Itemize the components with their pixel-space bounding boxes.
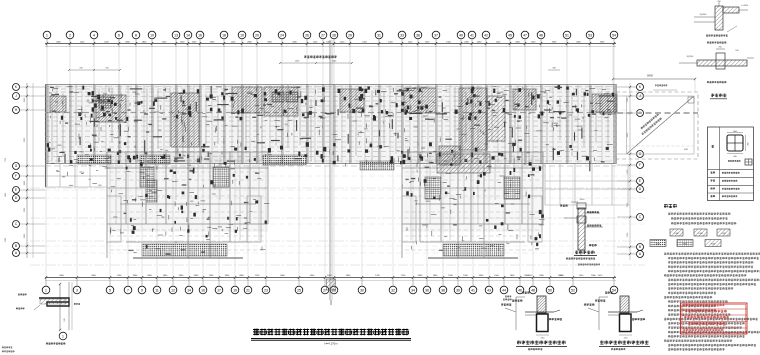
svg-text:13: 13 [174,33,178,37]
svg-text:26: 26 [305,33,309,37]
svg-text:8: 8 [135,33,137,37]
svg-text:h120: h120 [721,233,725,235]
annex edge hatch [600,96,616,114]
left lower unit cluster [107,152,268,258]
svg-text:B: B [639,245,641,249]
svg-text:2: 2 [69,33,71,37]
svg-text:14: 14 [187,288,191,292]
dotted slab bands [77,155,504,256]
svg-text:54: 54 [612,288,616,292]
svg-text:5: 5 [109,288,111,292]
svg-text:16: 16 [201,288,205,292]
right end rooms [545,164,630,205]
svg-text:36: 36 [416,33,420,37]
svg-text:6: 6 [118,33,120,37]
svg-text:F: F [15,174,17,178]
svg-text:30: 30 [360,288,364,292]
svg-text:48: 48 [539,33,543,37]
annex grid dashes [617,96,698,154]
slab drop detail (two) [584,292,645,340]
svg-text:41: 41 [470,33,474,37]
stair core hatch [96,95,126,122]
svg-text:1750: 1750 [5,158,7,162]
svg-text:h120: h120 [698,233,702,235]
note above plan [304,56,337,59]
annex top dimension 8400 [612,47,696,92]
notes title 说明 [664,204,677,208]
svg-text:1: 1 [46,33,48,37]
svg-text:38: 38 [441,288,445,292]
svg-text:46: 46 [518,288,522,292]
cross hatched columns [99,92,520,202]
left tower core hatch [171,93,199,147]
svg-text:33: 33 [400,33,404,37]
svg-text:2016: 2016 [580,199,586,201]
svg-text:53: 53 [588,33,592,37]
svg-text:h130: h130 [711,244,715,246]
hatch block [592,94,617,112]
svg-text:23: 23 [264,288,268,292]
horizontal grid lines [45,87,645,253]
svg-text:E: E [639,179,641,183]
svg-text:11: 11 [155,288,159,292]
beam mark dashes [59,86,613,171]
right grid bubbles column [617,84,644,258]
svg-text:h130: h130 [656,244,660,246]
svg-text:H=4.170m: H=4.170m [325,342,339,346]
hatch block [404,88,436,113]
svg-text:L=1500: L=1500 [741,5,749,7]
left lower cluster wash [107,152,268,232]
interior horizontal dashed walls [45,89,616,157]
svg-text:42: 42 [484,33,488,37]
svg-text:h130: h130 [683,244,687,246]
svg-text:21: 21 [246,288,250,292]
right lower unit cluster [402,152,543,258]
leader note above right dim [578,264,600,266]
top grid bubbles row [43,31,618,47]
svg-text:44: 44 [502,288,506,292]
svg-text:19: 19 [240,33,244,37]
svg-text:43: 43 [487,288,491,292]
svg-text:47: 47 [523,33,527,37]
svg-text:31: 31 [377,33,381,37]
building outline top edge [45,85,616,87]
svg-text:25: 25 [297,288,301,292]
svg-text:32: 32 [391,288,395,292]
svg-text:41: 41 [471,288,475,292]
hatch block [439,146,460,165]
left slab edge detail [16,282,80,331]
tiny label smudges [50,87,610,254]
interior vertical walls [47,84,616,164]
legend hatch swatches row1 [670,229,730,236]
annex dashed outer box [616,92,698,159]
annex leader note [653,85,677,91]
hatch block [513,89,536,110]
svg-text:54: 54 [612,33,616,37]
note under bubble 50 [503,296,512,301]
svg-text:17: 17 [217,288,221,292]
red approval stamp [681,303,748,334]
small dims above plan [68,61,560,72]
vertical grid lines upper [47,47,614,84]
left end hatch [50,96,66,112]
svg-text:14: 14 [186,33,190,37]
lower cluster dark marks [126,153,544,248]
svg-text:9: 9 [141,288,143,292]
legend hatch swatches row2 [650,240,721,247]
expansion joint double line [330,40,332,300]
svg-text:8400: 8400 [647,74,653,78]
svg-text:24: 24 [280,33,284,37]
svg-text:45: 45 [508,33,512,37]
svg-text:8@200: 8@200 [700,14,707,16]
small dark columns scattered [47,85,614,166]
svg-text:29: 29 [348,33,352,37]
svg-text:34: 34 [411,288,415,292]
svg-text:48: 48 [531,288,535,292]
svg-text:F: F [639,163,641,167]
left end rooms [45,164,107,187]
svg-text:1: 1 [62,334,64,338]
notes body text [664,253,760,351]
svg-text:36: 36 [425,288,429,292]
lower cluster tick texture [111,153,544,250]
corner note bottom-left [2,347,14,353]
band end walls [46,84,617,187]
detail A: wall step section [694,1,749,44]
hatch block [340,89,364,112]
lower center hatch [437,154,490,173]
parapet wall detail [560,199,603,256]
hatch block [232,87,262,113]
details title [710,94,727,99]
svg-text:E: E [15,188,17,192]
left grid bubbles column [13,84,46,257]
slab drop detail (one) [501,292,562,340]
band bottom double dashed [45,165,616,167]
annex top-right marker [688,97,694,103]
left margin tiny dims [5,158,7,242]
faint horizontal lines lower zone [30,188,645,265]
svg-text:3300: 3300 [5,238,7,242]
svg-text:18: 18 [222,33,226,37]
top dimension line [45,41,616,46]
svg-text:2900: 2900 [5,193,7,197]
annotation tick marks texture [49,86,613,255]
parapet detail caption [566,251,597,260]
band wash [45,84,616,164]
hatch block [264,87,298,116]
bottom dimension line [45,275,616,281]
right vertical dimension line [627,83,631,260]
svg-text:7: 7 [127,288,129,292]
svg-text:3: 3 [76,288,78,292]
svg-text:52: 52 [571,288,575,292]
svg-text:B: B [15,244,17,248]
left detail caption circle 1 [46,332,67,345]
right bottom dim texts [528,275,603,277]
svg-text:40: 40 [459,33,463,37]
svg-text:4: 4 [93,33,95,37]
annex inner box [627,96,695,154]
building outline bottom edge [45,161,616,164]
svg-text:12: 12 [171,288,175,292]
drawing title [251,329,411,346]
annex diagonal brace [627,96,695,154]
right lower cluster wash [402,152,543,232]
svg-text:8@200: 8@200 [687,56,694,58]
svg-text:27: 27 [321,33,325,37]
slab drop detail caption (two) [599,341,650,351]
notes first lines [668,213,736,225]
hatch block [487,96,505,141]
left vertical dimension lines [24,83,33,258]
svg-text:39: 39 [456,288,460,292]
table column section symbol [727,131,752,165]
detail B: slab section [679,47,754,84]
bottom grid bubbles row [42,278,618,294]
svg-text:37: 37 [434,33,438,37]
svg-text:20: 20 [255,33,259,37]
slab drop detail caption (one) [516,341,567,351]
svg-text:51: 51 [565,33,569,37]
right tower core hatch [459,88,487,150]
svg-text:50: 50 [548,288,552,292]
svg-text:16: 16 [198,33,202,37]
svg-text:19: 19 [233,288,237,292]
left end lower marks [51,152,110,186]
svg-text:28: 28 [332,33,336,37]
vertical grid lines lower [46,165,614,278]
svg-text:10: 10 [150,33,154,37]
svg-text:h120: h120 [674,233,678,235]
expansion joint hatch mark [327,279,336,305]
svg-text:1: 1 [45,288,47,292]
column schedule table [708,127,754,201]
